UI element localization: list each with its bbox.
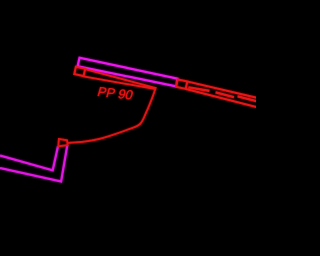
door leaf open (red thin wedge) (84, 69, 156, 89)
door leaf (magenta rectangle) (78, 58, 178, 87)
door swing arc (68, 88, 156, 143)
wall right top edge (187, 82, 257, 98)
wall hatch dash 1 (188, 87, 209, 91)
wall left outer line (0, 146, 67, 182)
wall hatch dash 2 (216, 92, 235, 97)
door frame post right (red box) (176, 79, 187, 89)
door frame post left (red box) (74, 67, 85, 76)
wall right bottom edge (186, 89, 257, 107)
wall hatch dash 3 (238, 96, 258, 101)
wall left inner line (0, 146, 58, 170)
wall left end cap (red) (58, 139, 67, 146)
